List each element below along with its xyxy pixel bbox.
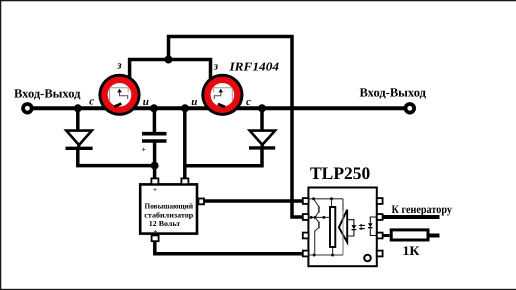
svg-text:IRF1404: IRF1404 [228,60,279,74]
svg-text:и: и [143,96,149,108]
svg-text:с: с [89,96,94,108]
svg-text:1К: 1К [403,243,421,258]
svg-text:+: + [142,145,147,154]
svg-text:с: с [246,96,251,108]
svg-text:стабилизатор: стабилизатор [144,211,193,220]
svg-text:з: з [116,60,122,72]
svg-text:+: + [153,186,157,194]
svg-text:12 Вольт: 12 Вольт [149,219,181,228]
svg-text:Вход-Выход: Вход-Выход [360,85,427,99]
svg-text:з: з [213,61,219,73]
svg-text:и: и [191,96,197,108]
svg-text:Вход-Выход: Вход-Выход [14,87,81,101]
svg-text:К генератору: К генератору [392,204,453,216]
svg-text:+: + [154,228,158,236]
svg-text:TLP250: TLP250 [310,163,371,183]
svg-text:Повышающий: Повышающий [145,201,194,210]
